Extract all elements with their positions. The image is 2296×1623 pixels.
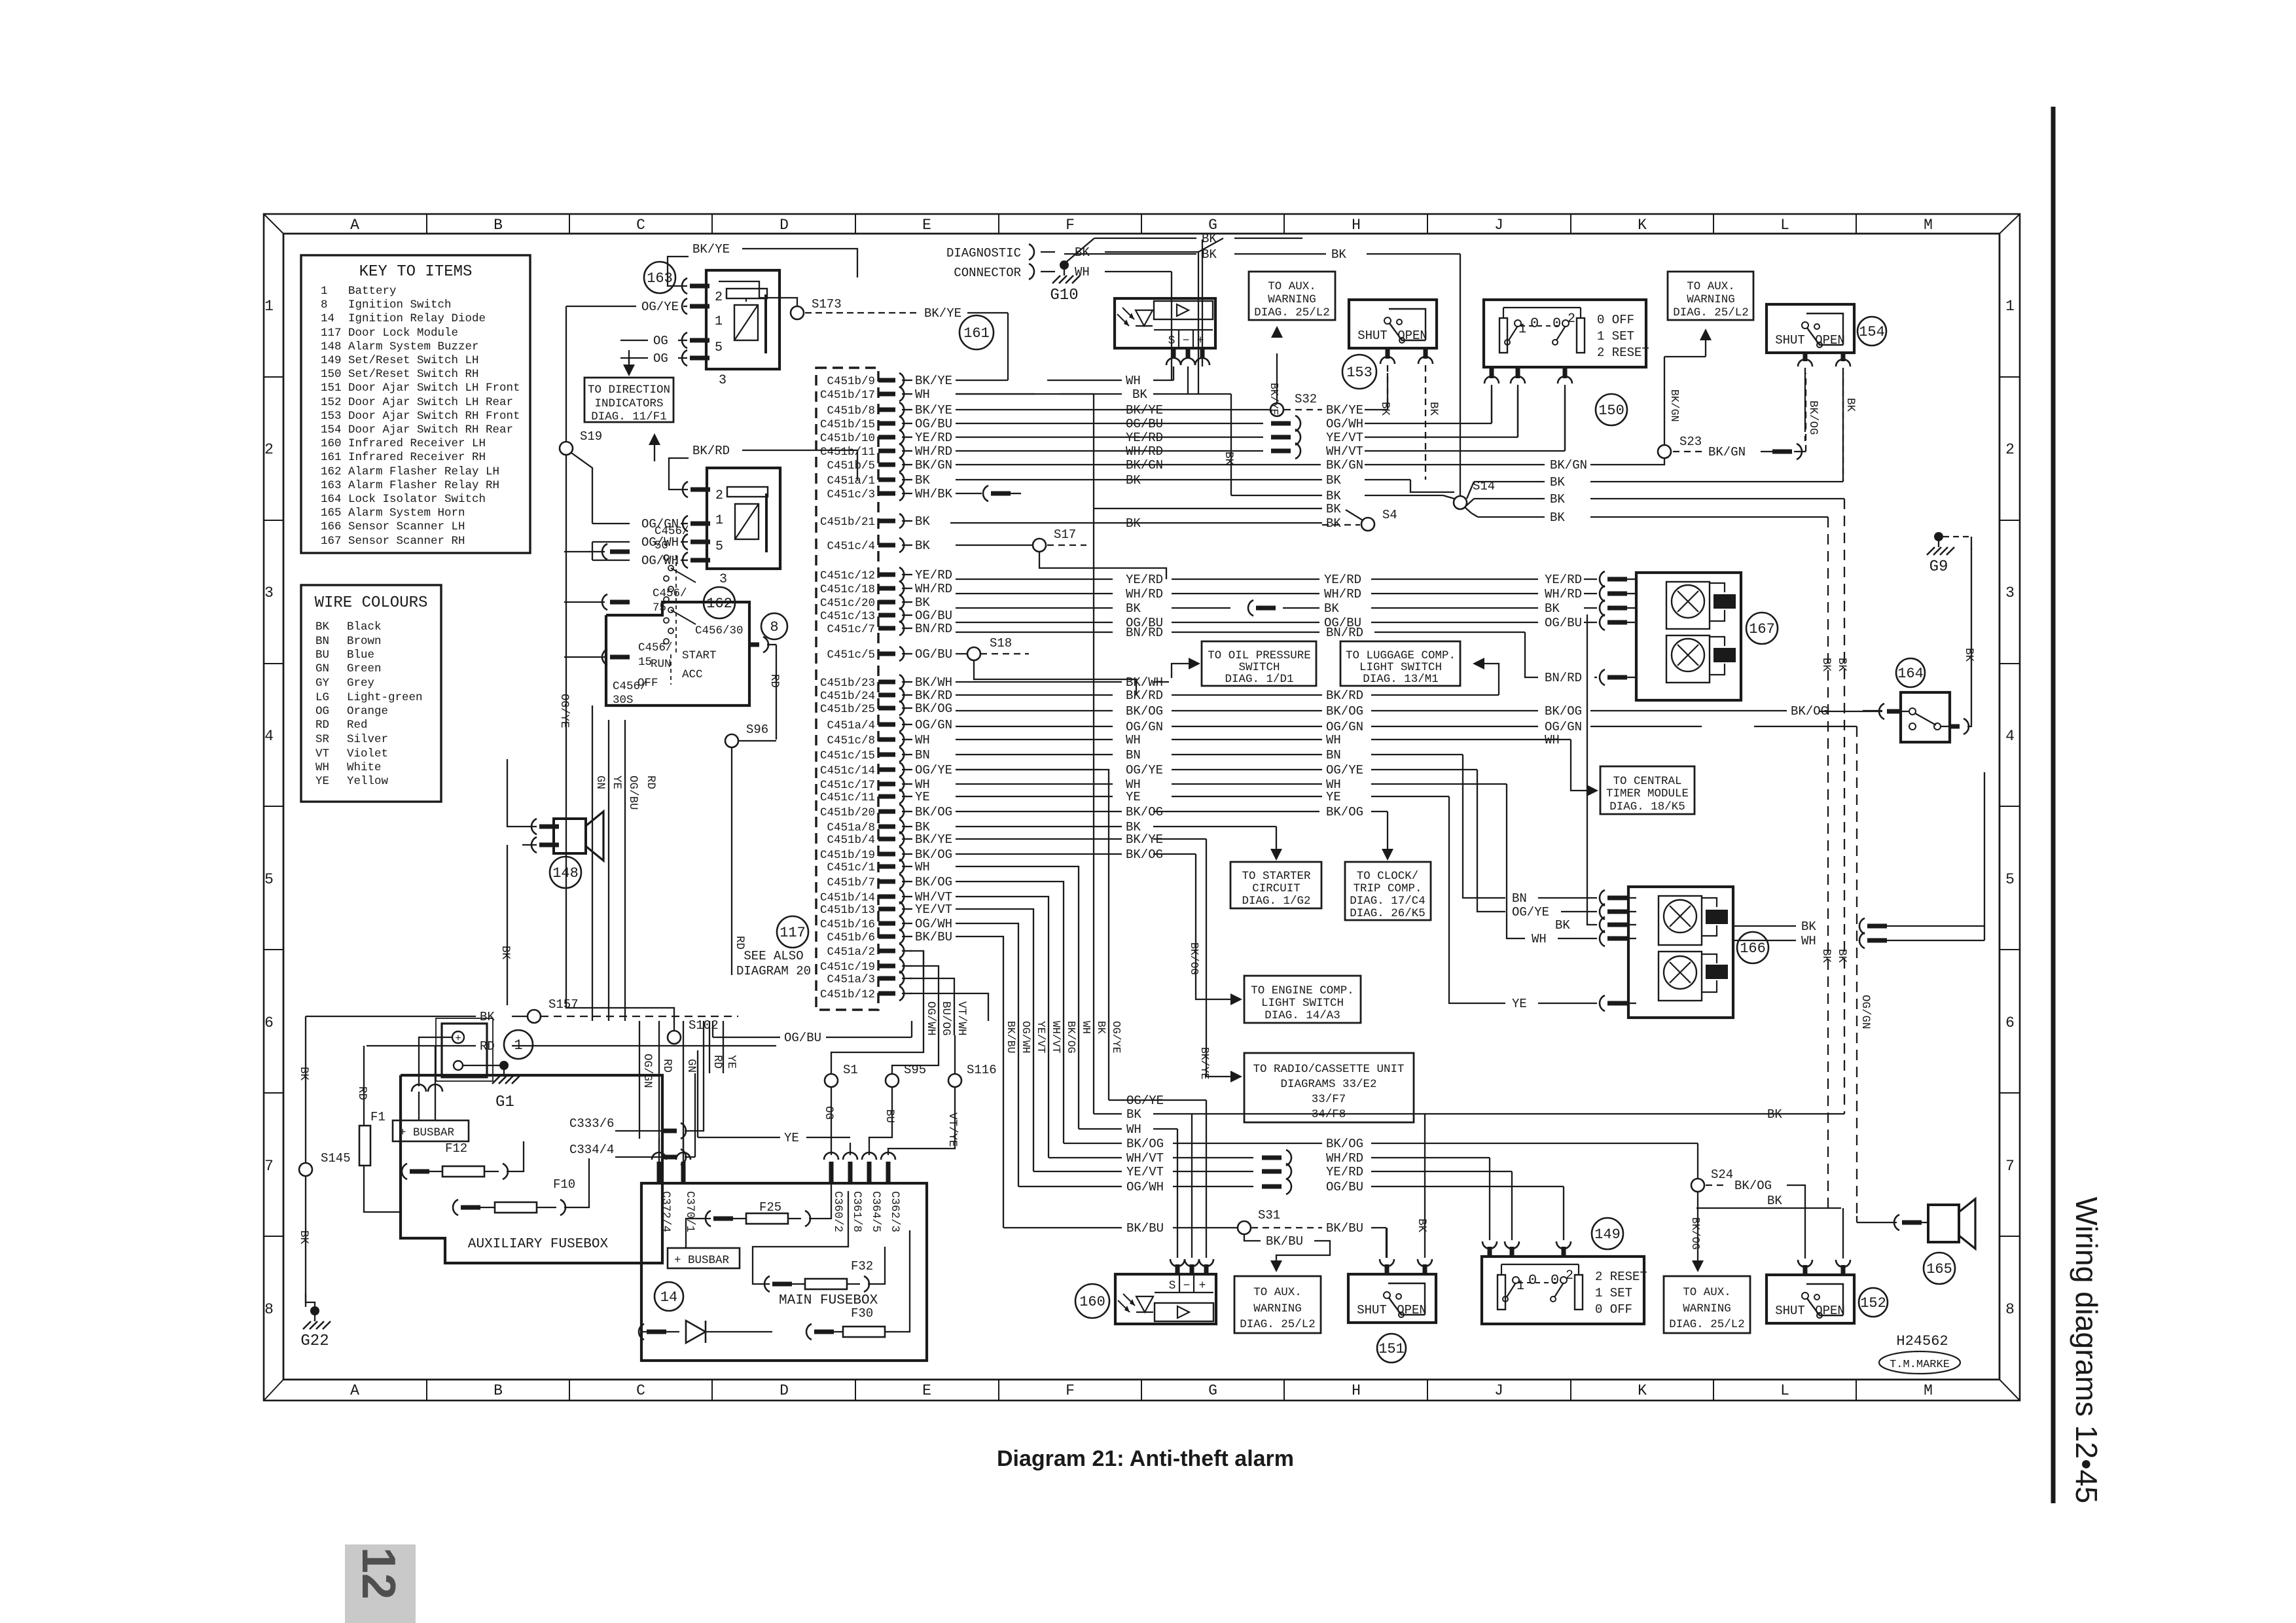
svg-text:Door Ajar Switch LH Front: Door Ajar Switch LH Front (348, 382, 520, 395)
svg-text:F30: F30 (851, 1306, 873, 1321)
svg-text:Silver: Silver (347, 733, 388, 746)
svg-text:S173: S173 (812, 297, 842, 312)
wire vertical from diagnostic BK (1198, 252, 1199, 394)
svg-text:DIAG. 25/L2: DIAG. 25/L2 (1240, 1318, 1316, 1331)
svg-text:OG/WH: OG/WH (915, 917, 952, 931)
lock isolator right exit (1950, 724, 1960, 729)
svg-text:WH/RD: WH/RD (915, 582, 952, 596)
vertical YE wire long (608, 720, 609, 1021)
svg-text:BK/OG: BK/OG (1126, 1137, 1164, 1151)
svg-text:WH/RD: WH/RD (1326, 1151, 1363, 1166)
lock isolator left hook (1879, 704, 1884, 719)
svg-text:Violet: Violet (347, 747, 388, 760)
wire S23 to door switch 154 (1673, 451, 1702, 452)
door ajar switch 151 (1348, 1274, 1436, 1323)
wire row YE/RD to scanner 167 (956, 579, 1113, 580)
svg-text:BK: BK (1767, 1194, 1782, 1208)
alarm flasher relay 163 (706, 270, 780, 369)
svg-text:YE/RD: YE/RD (1326, 1165, 1363, 1179)
svg-text:BK: BK (1126, 1107, 1141, 1122)
svg-text:WH/RD: WH/RD (1324, 587, 1361, 601)
receiver 161 pins (1172, 348, 1176, 359)
svg-text:BN: BN (1512, 891, 1527, 906)
drawing frame inner border (283, 234, 2000, 1380)
wire row WH/BK from C451c/3 (956, 493, 982, 494)
svg-text:BK: BK (1415, 1219, 1428, 1233)
svg-text:33/F7: 33/F7 (1312, 1093, 1346, 1106)
svg-text:Alarm Flasher Relay RH: Alarm Flasher Relay RH (348, 479, 499, 492)
svg-text:50: 50 (655, 539, 668, 552)
svg-text:163: 163 (321, 479, 342, 492)
svg-text:WH: WH (1326, 733, 1341, 747)
svg-text:Orange: Orange (347, 705, 388, 718)
svg-text:BK: BK (1820, 949, 1833, 963)
svg-text:C451b/12: C451b/12 (820, 988, 875, 1001)
svg-text:CIRCUIT: CIRCUIT (1252, 882, 1300, 895)
svg-text:Yellow: Yellow (347, 775, 389, 788)
svg-text:BK: BK (1545, 601, 1560, 616)
svg-text:15: 15 (638, 656, 652, 669)
svg-text:S96: S96 (746, 722, 768, 737)
svg-text:YE/RD: YE/RD (915, 568, 952, 582)
wire row BK/OG b19 (956, 853, 1122, 855)
svg-text:75: 75 (653, 601, 666, 615)
to luggage comp box (1340, 641, 1460, 686)
svg-text:Ignition Relay Diode: Ignition Relay Diode (348, 312, 486, 325)
svg-text:8: 8 (321, 298, 328, 312)
svg-text:TO AUX.: TO AUX. (1683, 1286, 1731, 1299)
svg-text:CONNECTOR: CONNECTOR (954, 266, 1021, 280)
wire row OG/BU S18 (956, 653, 967, 654)
wire row BN to scanner 166 (956, 754, 1113, 755)
circled ref 165 (1924, 1253, 1955, 1284)
svg-text:GY: GY (315, 677, 330, 690)
drawing frame outer border (264, 214, 2020, 1400)
svg-text:3: 3 (2005, 584, 2015, 601)
svg-text:OG/GN: OG/GN (1545, 720, 1582, 734)
svg-text:WIRE COLOURS: WIRE COLOURS (315, 594, 428, 612)
svg-text:C451c/15: C451c/15 (820, 749, 875, 762)
svg-text:BK: BK (1126, 473, 1141, 488)
svg-text:C451c/18: C451c/18 (820, 583, 875, 596)
svg-text:1: 1 (715, 314, 723, 329)
svg-text:S: S (1169, 1279, 1176, 1293)
wire from S18 down (974, 660, 1136, 695)
svg-text:2: 2 (715, 290, 723, 305)
svg-text:BK: BK (1962, 648, 1975, 662)
svg-text:B: B (493, 217, 503, 234)
svg-text:SWITCH: SWITCH (1238, 661, 1280, 674)
svg-text:SHUT: SHUT (1775, 1304, 1805, 1318)
wire row WH to central timer (956, 739, 1113, 740)
svg-text:2: 2 (264, 441, 274, 458)
svg-text:Red: Red (347, 719, 368, 732)
svg-text:YE: YE (725, 1055, 738, 1069)
svg-text:BN/RD: BN/RD (1126, 626, 1163, 640)
svg-text:+ BUSBAR: + BUSBAR (399, 1126, 455, 1139)
svg-text:Green: Green (347, 662, 382, 675)
svg-text:160: 160 (321, 437, 342, 450)
wire S19 down OG/YE (565, 455, 567, 733)
svg-text:YE/VT: YE/VT (1326, 431, 1363, 445)
vertical RD wire from C456/30 (776, 645, 777, 740)
svg-text:OG/WH: OG/WH (924, 1001, 937, 1036)
svg-text:RD: RD (733, 936, 746, 950)
svg-text:Ignition Switch: Ignition Switch (348, 298, 452, 312)
wire row BK c4 to S17 (956, 544, 1033, 546)
wire row OG/BU to OG/WH (956, 423, 1263, 424)
svg-text:BN: BN (315, 635, 329, 648)
svg-text:BK/OG: BK/OG (1545, 704, 1582, 719)
svg-text:BK: BK (1095, 1021, 1107, 1034)
svg-text:2: 2 (2005, 441, 2015, 458)
sensor scanner 167 (1636, 573, 1741, 700)
receiver 160 pin wires (1177, 1129, 1178, 1258)
svg-text:DIAG. 17/C4: DIAG. 17/C4 (1350, 895, 1426, 908)
svg-text:Sensor Scanner RH: Sensor Scanner RH (348, 535, 465, 548)
svg-text:BU/OG: BU/OG (939, 1001, 952, 1036)
svg-text:C456/: C456/ (655, 525, 689, 538)
svg-text:DIAGRAM 20: DIAGRAM 20 (736, 964, 811, 978)
svg-text:154: 154 (321, 423, 342, 437)
svg-text:OG/BU: OG/BU (1545, 616, 1582, 630)
svg-text:WARNING: WARNING (1253, 1302, 1302, 1315)
ignition switch contacts (664, 555, 669, 560)
svg-text:F25: F25 (759, 1200, 781, 1215)
circled ref 166 (1737, 932, 1768, 963)
svg-text:C451c/19: C451c/19 (820, 961, 875, 974)
svg-text:SHUT: SHUT (1357, 1303, 1387, 1317)
svg-text:167: 167 (1749, 621, 1775, 637)
svg-text:C451a/4: C451a/4 (827, 719, 875, 732)
wire BK into scanner 166 (1587, 615, 1597, 925)
svg-text:OG/WH: OG/WH (1326, 417, 1363, 431)
svg-text:7: 7 (2005, 1158, 2015, 1175)
door ajar switch 154 (1767, 304, 1854, 353)
svg-text:G22: G22 (300, 1332, 329, 1350)
wire row WH to scanner 166 (956, 783, 1113, 785)
svg-text:14: 14 (660, 1289, 677, 1306)
svg-text:BK: BK (1835, 658, 1848, 672)
wires down to fusebox pins (831, 1113, 832, 1155)
wire row BK/YE S32 (956, 409, 1270, 410)
svg-text:5: 5 (2005, 871, 2015, 888)
svg-text:8: 8 (264, 1301, 274, 1318)
wire BK row to 152 (1696, 1207, 1841, 1209)
svg-text:H: H (1352, 1382, 1361, 1399)
auxiliary fusebox outline (401, 1075, 662, 1263)
svg-text:BK/GN: BK/GN (1668, 389, 1681, 422)
svg-text:TO DIRECTION: TO DIRECTION (588, 383, 670, 397)
switch 150 pins (1490, 367, 1494, 378)
svg-text:1: 1 (321, 285, 328, 298)
svg-text:C372/4: C372/4 (659, 1191, 672, 1232)
svg-text:0: 0 (1552, 315, 1561, 332)
svg-text:C451b/8: C451b/8 (827, 404, 875, 418)
svg-text:OG/YE: OG/YE (1126, 763, 1163, 777)
wire riser BK/YE from pin C451b-9 (1007, 313, 1009, 380)
svg-text:C451c/12: C451c/12 (820, 569, 875, 582)
circled ref 164 (1896, 658, 1925, 687)
svg-text:Door Ajar Switch RH Rear: Door Ajar Switch RH Rear (348, 423, 513, 437)
svg-text:150: 150 (1598, 402, 1624, 419)
svg-text:AUXILIARY FUSEBOX: AUXILIARY FUSEBOX (468, 1237, 609, 1252)
svg-text:S145: S145 (321, 1151, 351, 1166)
svg-text:Sensor Scanner LH: Sensor Scanner LH (348, 520, 465, 533)
svg-text:DIAG. 1/G2: DIAG. 1/G2 (1242, 895, 1310, 908)
svg-text:WH/VT: WH/VT (1050, 1021, 1062, 1054)
circled ref 160 (1075, 1284, 1109, 1318)
svg-text:YE/RD: YE/RD (1545, 573, 1582, 587)
svg-text:BK/OG: BK/OG (1326, 1137, 1363, 1151)
splice S173 (791, 306, 804, 319)
svg-text:BK: BK (1326, 516, 1341, 531)
svg-text:WH: WH (1801, 934, 1816, 948)
svg-text:1: 1 (1518, 322, 1526, 337)
svg-text:C: C (636, 1382, 645, 1399)
svg-text:A: A (350, 217, 359, 234)
svg-text:8: 8 (770, 619, 778, 635)
main fusebox top pins C372/4 C370/1 (657, 1162, 662, 1183)
svg-text:F32: F32 (851, 1259, 873, 1274)
svg-text:C451b/21: C451b/21 (820, 516, 875, 529)
svg-text:1: 1 (1516, 1279, 1524, 1294)
wire BK third right of S14 (1478, 516, 1545, 518)
svg-text:E: E (922, 217, 931, 234)
svg-text:C451c/5: C451c/5 (827, 649, 875, 662)
svg-text:D: D (780, 1382, 789, 1399)
arrow into central timer box (1587, 785, 1598, 796)
svg-text:BK: BK (1801, 919, 1816, 934)
splice S96 (725, 734, 738, 747)
set/reset switch 150 (1484, 300, 1646, 367)
svg-text:M: M (1924, 1382, 1933, 1399)
wire WH right of scanner 166 (1733, 940, 1796, 941)
wire S32 to aux warning arrow (1276, 353, 1278, 403)
svg-text:0: 0 (1528, 1272, 1537, 1289)
svg-text:BK: BK (1326, 502, 1341, 516)
svg-text:DIAG. 25/L2: DIAG. 25/L2 (1254, 306, 1330, 319)
svg-text:C451a/1: C451a/1 (827, 474, 875, 488)
wires connecting rows to 160 (1109, 1099, 1206, 1101)
wire row WH/RD to WH/VT (956, 450, 1263, 452)
wire BK right of scanner 166 (1733, 925, 1796, 927)
vertical GN wire to C370/1 (683, 1021, 684, 1162)
svg-text:WH/VT: WH/VT (1126, 1151, 1164, 1166)
svg-text:S24: S24 (1711, 1168, 1733, 1182)
svg-text:Black: Black (347, 620, 382, 633)
wire row BK a8 to starter (956, 826, 1122, 827)
splice S18 (967, 647, 980, 660)
svg-text:S157: S157 (548, 997, 579, 1012)
wire colours box (301, 585, 441, 802)
svg-text:WH/RD: WH/RD (1545, 587, 1582, 601)
svg-text:TO LUGGAGE COMP.: TO LUGGAGE COMP. (1346, 649, 1456, 662)
svg-text:BU: BU (883, 1109, 896, 1123)
svg-text:OG/GN: OG/GN (1326, 720, 1363, 734)
circled ref 1 (504, 1030, 533, 1059)
wire BK second right of S14 (1474, 498, 1545, 499)
arrow into luggage box (1473, 658, 1484, 669)
wire row BK third (1094, 508, 1322, 509)
svg-text:DIAG. 25/L2: DIAG. 25/L2 (1673, 306, 1749, 319)
wire row OG/YE to scanner 166 (956, 769, 1100, 770)
svg-text:DIAG. 13/M1: DIAG. 13/M1 (1363, 673, 1439, 686)
svg-text:K: K (1638, 1382, 1647, 1399)
svg-text:A: A (350, 1382, 359, 1399)
svg-text:OG: OG (653, 334, 668, 348)
svg-text:BN/RD: BN/RD (915, 622, 952, 636)
svg-text:163: 163 (647, 270, 673, 287)
svg-text:Set/Reset Switch LH: Set/Reset Switch LH (348, 354, 479, 367)
svg-text:7: 7 (264, 1158, 274, 1175)
svg-text:149: 149 (1594, 1226, 1621, 1243)
svg-text:1 SET: 1 SET (1595, 1286, 1632, 1300)
svg-text:BK/WH: BK/WH (1126, 675, 1163, 690)
svg-text:0 OFF: 0 OFF (1597, 313, 1634, 327)
svg-text:149: 149 (321, 354, 342, 367)
svg-text:117: 117 (321, 327, 342, 340)
svg-text:DIAG. 11/F1: DIAG. 11/F1 (591, 410, 667, 423)
svg-text:OG/BU: OG/BU (784, 1031, 821, 1045)
svg-text:BU: BU (315, 649, 329, 662)
svg-text:WH/RD: WH/RD (1126, 587, 1163, 601)
svg-text:OG/YE: OG/YE (1326, 763, 1363, 777)
set/reset switch 149 (1482, 1257, 1644, 1324)
buzzer wires (531, 819, 537, 834)
svg-text:0: 0 (1551, 1272, 1559, 1289)
key to items box (301, 255, 530, 553)
circled ref 150 (1596, 394, 1627, 425)
svg-text:C451b/24: C451b/24 (820, 690, 875, 703)
wire row OG/BU to scanner 167 (956, 622, 1113, 623)
svg-text:Blue: Blue (347, 649, 374, 662)
svg-text:4: 4 (264, 728, 274, 745)
svg-text:C451c/17: C451c/17 (820, 779, 875, 792)
svg-text:1: 1 (2005, 298, 2015, 315)
svg-text:L: L (1780, 1382, 1789, 1399)
wire diagonal diagnostic BK to row (1198, 238, 1223, 252)
svg-text:OG/YE: OG/YE (915, 763, 952, 777)
svg-text:S1: S1 (843, 1063, 858, 1077)
to radio cassette unit box (1244, 1053, 1414, 1122)
svg-text:C451b/16: C451b/16 (820, 918, 875, 931)
svg-text:WH: WH (915, 387, 930, 402)
svg-text:BK/OG: BK/OG (1126, 847, 1163, 862)
svg-text:BK/YE: BK/YE (1326, 403, 1363, 418)
svg-text:D: D (780, 217, 789, 234)
svg-text:BK: BK (297, 1067, 310, 1081)
svg-text:BK/OG: BK/OG (1689, 1217, 1702, 1250)
alarm flasher relay 162 (707, 468, 780, 569)
svg-text:C451b/11: C451b/11 (820, 446, 875, 459)
verticals GN YE RD below switch area (582, 653, 583, 658)
wire row BK right of S14 to switch 154 (1474, 481, 1545, 482)
svg-text:DIAG. 25/L2: DIAG. 25/L2 (1669, 1318, 1745, 1331)
svg-text:+: + (455, 1033, 461, 1044)
svg-text:WH/BK: WH/BK (915, 487, 953, 501)
svg-text:2: 2 (1568, 312, 1575, 327)
circled ref 167 (1746, 613, 1778, 644)
splice S14 (1454, 496, 1467, 509)
svg-text:YE: YE (784, 1131, 799, 1145)
svg-text:BK/YE: BK/YE (915, 832, 952, 847)
infrared receiver 161 (1115, 298, 1215, 348)
svg-text:YE/RD: YE/RD (1324, 573, 1361, 587)
circled ref 149 (1592, 1218, 1623, 1249)
svg-text:148: 148 (321, 340, 342, 353)
svg-text:BK/RD: BK/RD (1326, 688, 1363, 703)
svg-text:C451c/1: C451c/1 (827, 861, 875, 874)
svg-text:164: 164 (1897, 666, 1924, 682)
svg-text:C361/8: C361/8 (850, 1191, 863, 1232)
svg-text:Door Ajar Switch RH Front: Door Ajar Switch RH Front (348, 410, 520, 423)
svg-text:166: 166 (1740, 940, 1766, 957)
svg-text:WH: WH (915, 733, 930, 747)
svg-text:WH: WH (915, 860, 930, 874)
svg-text:BK/GN: BK/GN (1126, 458, 1163, 473)
svg-text:VT/WH: VT/WH (955, 1001, 968, 1036)
svg-text:S14: S14 (1473, 479, 1495, 493)
svg-text:RUN: RUN (651, 658, 672, 671)
svg-text:S17: S17 (1054, 527, 1076, 542)
svg-text:2 RESET: 2 RESET (1595, 1270, 1647, 1284)
svg-text:BK/OG: BK/OG (1806, 401, 1820, 435)
svg-text:161: 161 (963, 325, 990, 342)
svg-text:WH: WH (315, 761, 329, 774)
wire BK/YE top of relay 163 (668, 257, 689, 286)
svg-text:167: 167 (321, 535, 342, 548)
svg-text:WH/RD: WH/RD (1126, 444, 1163, 459)
svg-text:TO RADIO/CASSETTE UNIT: TO RADIO/CASSETTE UNIT (1253, 1063, 1404, 1076)
svg-text:BK/YE: BK/YE (1198, 1047, 1211, 1080)
svg-text:TO STARTER: TO STARTER (1242, 870, 1311, 883)
svg-text:J: J (1494, 1382, 1503, 1399)
svg-text:OG/BU: OG/BU (915, 609, 952, 623)
wire S31 drop to aux warning (1244, 1234, 1261, 1241)
circled ref 152 (1859, 1288, 1888, 1317)
vertical YE wire (723, 1021, 724, 1073)
svg-text:Grey: Grey (347, 677, 374, 690)
circled ref 163 (644, 262, 675, 293)
svg-text:6: 6 (2005, 1014, 2015, 1031)
svg-text:162: 162 (706, 596, 732, 612)
main fusebox top pins C360/2 C361/8 C364/5 C362/3 (829, 1162, 834, 1183)
svg-text:BK/RD: BK/RD (1126, 688, 1163, 703)
wires stepping from switch verticals to rows (583, 732, 592, 734)
sensor scanner 166 (1628, 887, 1733, 1018)
wire row BN/RD to scanner 167 (956, 632, 1113, 633)
svg-text:BK/OG: BK/OG (1126, 805, 1163, 819)
svg-text:152: 152 (321, 396, 342, 409)
svg-text:DIAG. 26/K5: DIAG. 26/K5 (1350, 907, 1426, 920)
wire S24 to 152 shut pin (1706, 1185, 1728, 1186)
svg-text:166: 166 (321, 520, 342, 533)
svg-text:TIMER MODULE: TIMER MODULE (1606, 787, 1689, 800)
splice S31 (1238, 1221, 1251, 1234)
busbar box aux (393, 1120, 469, 1141)
vertical OG/GN wire (639, 1021, 640, 1139)
svg-text:BK: BK (1331, 247, 1346, 262)
svg-text:SR: SR (315, 733, 330, 746)
svg-text:BK: BK (1835, 949, 1848, 963)
svg-text:30S: 30S (613, 694, 634, 707)
svg-text:165: 165 (321, 507, 342, 520)
svg-text:BK: BK (915, 539, 930, 553)
svg-text:BK: BK (1324, 601, 1339, 616)
arrow into oil pressure box (1189, 658, 1200, 669)
wire from C451b/12 down (910, 993, 1003, 1021)
